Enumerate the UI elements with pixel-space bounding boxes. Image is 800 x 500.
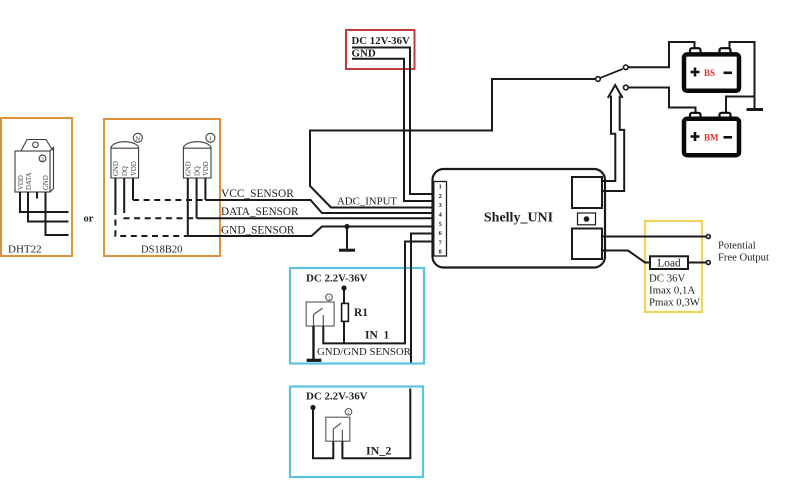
pin header J1 (434, 182, 447, 257)
switch box S-IN2 (326, 417, 350, 441)
wire ADC route from switch common (310, 79, 600, 208)
switch blade (600, 69, 623, 78)
svg-text:GND/GND SENSOR: GND/GND SENSOR (317, 346, 412, 358)
switch box S-IN1 (306, 302, 334, 326)
wire DHT22 VDD (20, 192, 69, 212)
dashed wire GND bus (115, 209, 187, 236)
resistor R1 (342, 303, 349, 321)
svg-text:DC 2.2V-36V: DC 2.2V-36V (306, 273, 368, 285)
svg-text:1: 1 (439, 184, 442, 191)
ground bar (339, 249, 355, 252)
DHT22 pin labels VDD DATA GND (18, 172, 50, 190)
svg-text:or: or (84, 214, 94, 225)
wire relay K1 upper contact to actuator (602, 96, 615, 182)
wire GND to pin2 (352, 59, 434, 201)
battery BS (684, 48, 739, 91)
terminal dot IN2 (310, 405, 315, 410)
sensor 1 pin labels (185, 161, 210, 176)
DHT22 sensor U-DHT (15, 140, 54, 193)
svg-text:GND: GND (113, 161, 120, 176)
pin numbers 1-8 (439, 184, 443, 256)
wire DATA_SENSOR (197, 217, 434, 219)
svg-text:DC 36V: DC 36V (649, 273, 685, 285)
svg-text:2: 2 (439, 193, 442, 200)
DS18B20 enclosure box (104, 119, 220, 256)
svg-text:3: 3 (439, 202, 442, 209)
wire DC+ to pin1 (352, 48, 434, 195)
relay contact box top K1 (572, 177, 602, 208)
ground bar IN1 (307, 359, 322, 362)
wire IN2 signal (342, 389, 410, 459)
svg-text:GND_SENSOR: GND_SENSOR (221, 225, 295, 237)
DS18B20 sensor 1 (183, 133, 215, 178)
svg-text:7: 7 (439, 239, 442, 246)
blue box IN1 (290, 268, 424, 364)
svg-text:8: 8 (439, 249, 442, 256)
svg-text:1: 1 (209, 135, 212, 142)
terminal dot IN1 (341, 285, 346, 290)
Shelly_UNI body (433, 169, 606, 268)
actuator arrowhead (608, 85, 623, 98)
svg-text:Load: Load (657, 257, 681, 269)
red supply box DC 12V-36V (346, 30, 415, 69)
wire BM- (726, 97, 755, 114)
wire relay K2 lower to Load (602, 251, 650, 263)
terminal lower (706, 261, 710, 265)
yellow output box (645, 221, 702, 312)
svg-text:BS: BS (704, 68, 715, 78)
svg-text:BM: BM (704, 133, 719, 143)
svg-text:IN_2: IN_2 (366, 444, 391, 458)
DHT22 NC pin stub (36, 192, 38, 199)
DHT22 enclosure box (1, 118, 72, 256)
svg-text:2: 2 (41, 157, 44, 163)
svg-text:DHT22: DHT22 (8, 244, 42, 256)
wire dot to switch IN2 (313, 408, 333, 459)
switch SW1 common (596, 77, 601, 82)
switch throw BM (624, 85, 629, 90)
svg-text:R1: R1 (354, 307, 368, 319)
svg-text:DQ: DQ (194, 166, 201, 176)
svg-text:N: N (135, 135, 140, 142)
svg-text:VDD: VDD (18, 175, 25, 190)
wire throw to BM+ (628, 88, 695, 114)
wire GND_SENSOR (188, 227, 434, 237)
svg-text:DATA_SENSOR: DATA_SENSOR (221, 206, 299, 218)
svg-text:VDD: VDD (203, 161, 210, 176)
svg-text:IN: IN (365, 330, 378, 342)
wire switch to ground IN1 (312, 326, 314, 359)
wire BS- to ground (730, 42, 755, 109)
wire dot to R1 (343, 288, 345, 303)
svg-text:GND: GND (43, 175, 50, 190)
wire Load to terminal (688, 262, 707, 264)
svg-text:1: 1 (384, 330, 390, 342)
wire throw to BS+ (628, 42, 694, 67)
svg-text:DC 2.2V-36V: DC 2.2V-36V (306, 391, 368, 403)
svg-text:Free Output: Free Output (718, 253, 769, 264)
wire R1 to bus (343, 321, 345, 343)
svg-text:Pmax 0,3W: Pmax 0,3W (649, 297, 701, 309)
svg-text:GND: GND (185, 161, 192, 176)
svg-text:DATA: DATA (26, 172, 33, 190)
switch throw BS (624, 65, 629, 70)
DS18B20 sensor N (111, 133, 142, 178)
svg-text:VCC_SENSOR: VCC_SENSOR (221, 188, 294, 200)
svg-text:Shelly_UNI: Shelly_UNI (484, 211, 553, 226)
svg-text:Imax 0,1A: Imax 0,1A (649, 285, 695, 297)
wire GND/GND SENSOR (411, 234, 434, 363)
svg-text:DQ: DQ (122, 166, 129, 176)
dashed wire VDD bus (133, 199, 205, 201)
ground stub GND_SENSOR (346, 227, 348, 249)
svg-text:DS18B20: DS18B20 (141, 245, 182, 256)
sensor 1 legs (188, 178, 206, 236)
Load box (650, 256, 688, 269)
wire relay K2 upper to terminal (602, 236, 707, 238)
wire VCC_SENSOR (205, 200, 433, 213)
svg-text:Potential: Potential (718, 241, 756, 252)
blue box IN2 (290, 387, 423, 478)
svg-text:ADC_INPUT: ADC_INPUT (337, 196, 397, 208)
relay contact box bottom K2 (572, 229, 602, 260)
wire DHT22 GND (46, 192, 69, 235)
svg-text:GND: GND (352, 48, 376, 60)
sensor N pin labels (113, 161, 138, 176)
svg-text:5: 5 (439, 221, 442, 228)
wire DHT22 DATA (28, 192, 69, 222)
svg-text:6: 6 (439, 230, 442, 237)
sensor N legs (115, 178, 133, 209)
battery BM (684, 113, 739, 155)
svg-text:VDD: VDD (131, 161, 138, 176)
junction dot GND (344, 224, 349, 229)
ground bar battery (747, 108, 764, 111)
wire IN1 signal (323, 242, 434, 344)
svg-text:DC 12V-36V: DC 12V-36V (352, 35, 410, 47)
terminal upper (706, 235, 710, 239)
wire relay K1 lower contact to actuator (602, 96, 624, 192)
button S1 (578, 213, 596, 225)
dashed wire DQ bus (124, 207, 196, 218)
